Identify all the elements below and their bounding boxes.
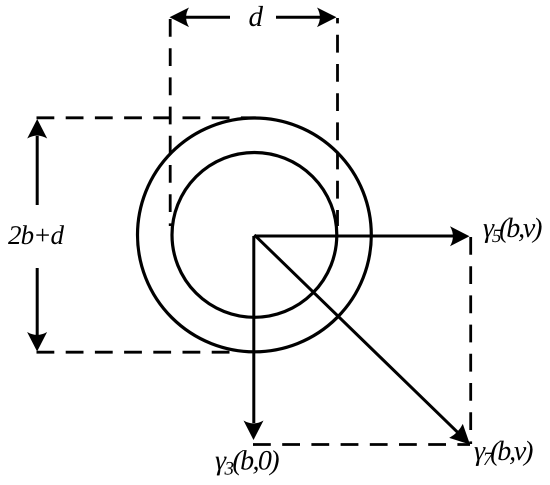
vector arrow gamma3 (vertical, from center down) — [244, 236, 264, 440]
dashed vertical line right (x = d right edge) — [336, 18, 339, 226]
svg-text:2b+d: 2b+d — [8, 220, 65, 250]
dashed horizontal line bottom right (from gamma3 tip to gamma7 tip) — [253, 443, 470, 446]
dashed horizontal line bottom (y = circle bottom) — [37, 351, 241, 354]
svg-text:d: d — [249, 1, 264, 33]
dimension arrow d (right half, pointing right) — [276, 8, 337, 28]
dimension arrow 2b+d (lower half, pointing down) — [27, 268, 47, 352]
dashed vertical line right (below gamma5 tip) — [469, 237, 472, 444]
outer circle — [138, 118, 372, 352]
dimension arrow 2b+d (upper half, pointing up) — [27, 119, 47, 205]
dashed vertical line left (x = d left edge) — [169, 19, 172, 226]
vector arrow gamma5 (horizontal, from center to right) — [254, 226, 469, 246]
inner circle — [172, 153, 337, 318]
vector arrow gamma7 (diagonal, from center to lower right) — [254, 235, 470, 445]
dashed horizontal line top (y = circle top) — [37, 116, 257, 119]
dimension arrow d (left half, pointing left) — [170, 8, 231, 28]
